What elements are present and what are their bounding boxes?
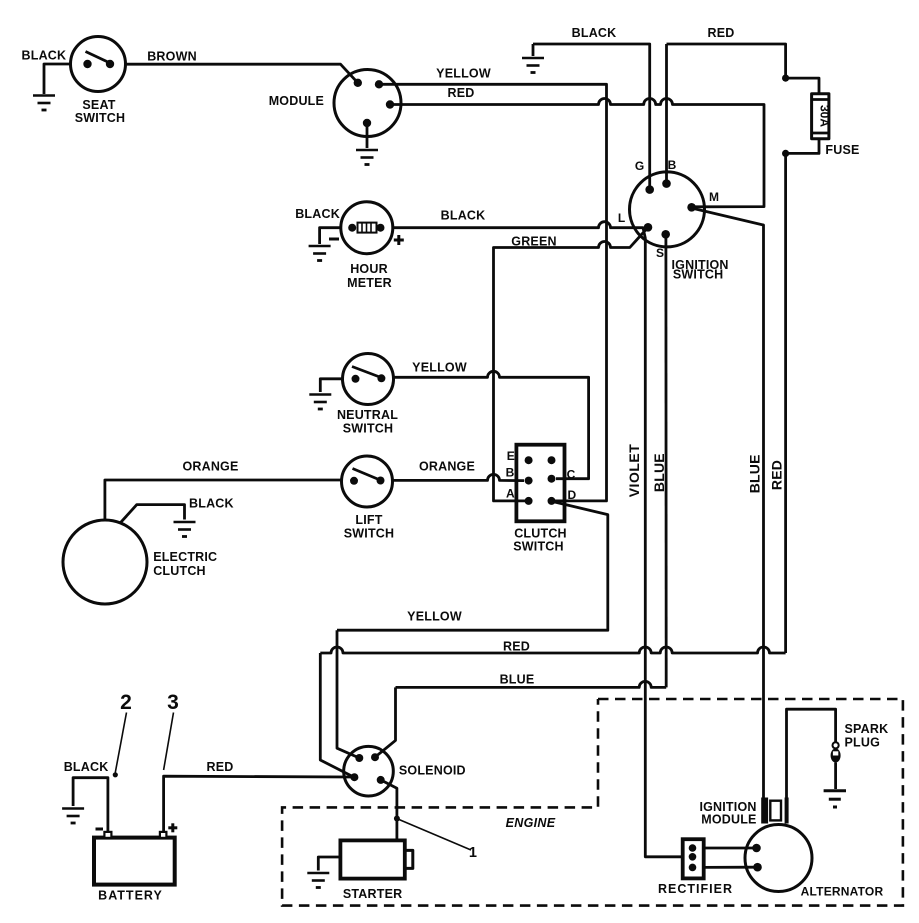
svg-text:SPARK: SPARK [845, 722, 889, 736]
svg-text:CLUTCH: CLUTCH [153, 564, 206, 578]
svg-text:FUSE: FUSE [825, 143, 859, 157]
svg-text:BLACK: BLACK [295, 207, 340, 221]
svg-text:C: C [567, 468, 576, 482]
svg-text:30A: 30A [817, 105, 831, 127]
svg-text:BLACK: BLACK [572, 26, 617, 40]
svg-text:YELLOW: YELLOW [407, 610, 462, 624]
svg-text:SWITCH: SWITCH [673, 268, 724, 282]
svg-text:BLUE: BLUE [500, 673, 535, 687]
svg-text:STARTER: STARTER [343, 887, 403, 901]
svg-text:SEAT: SEAT [82, 98, 115, 112]
svg-text:L: L [618, 211, 625, 225]
svg-text:MODULE: MODULE [269, 94, 324, 108]
svg-text:BLACK: BLACK [22, 49, 67, 63]
svg-text:RED: RED [503, 640, 530, 654]
svg-text:2: 2 [120, 691, 132, 714]
svg-text:RED: RED [769, 460, 785, 490]
svg-text:RED: RED [448, 86, 475, 100]
svg-text:YELLOW: YELLOW [436, 67, 491, 81]
svg-text:PLUG: PLUG [845, 736, 881, 750]
svg-text:MODULE: MODULE [701, 813, 756, 827]
svg-text:BROWN: BROWN [147, 50, 197, 64]
svg-text:GREEN: GREEN [511, 235, 556, 249]
svg-text:CLUTCH: CLUTCH [514, 527, 567, 541]
svg-text:BLUE: BLUE [651, 453, 667, 492]
svg-text:G: G [635, 159, 644, 173]
svg-text:BATTERY: BATTERY [98, 889, 163, 903]
svg-text:VIOLET: VIOLET [626, 444, 642, 498]
svg-text:E: E [507, 449, 515, 463]
svg-text:BLUE: BLUE [747, 454, 763, 493]
svg-text:BLACK: BLACK [64, 760, 109, 774]
svg-text:METER: METER [347, 276, 392, 290]
svg-text:D: D [567, 488, 576, 502]
svg-text:A: A [506, 487, 515, 501]
svg-text:NEUTRAL: NEUTRAL [337, 408, 398, 422]
svg-text:SWITCH: SWITCH [75, 111, 126, 125]
svg-text:BLACK: BLACK [189, 497, 234, 511]
svg-text:RED: RED [708, 26, 735, 40]
svg-text:ELECTRIC: ELECTRIC [153, 550, 217, 564]
svg-text:S: S [656, 246, 664, 260]
svg-text:B: B [506, 466, 515, 480]
svg-text:SWITCH: SWITCH [344, 527, 395, 541]
svg-text:SWITCH: SWITCH [343, 422, 394, 436]
svg-text:YELLOW: YELLOW [412, 361, 467, 375]
svg-text:ALTERNATOR: ALTERNATOR [801, 885, 884, 899]
svg-text:B: B [668, 158, 677, 172]
svg-text:3: 3 [167, 691, 179, 714]
svg-text:SOLENOID: SOLENOID [399, 764, 466, 778]
svg-text:LIFT: LIFT [355, 513, 382, 527]
svg-text:SWITCH: SWITCH [513, 540, 564, 554]
svg-text:ORANGE: ORANGE [419, 460, 475, 474]
svg-text:M: M [709, 190, 719, 204]
svg-text:HOUR: HOUR [350, 262, 388, 276]
svg-text:RED: RED [207, 760, 234, 774]
svg-text:ENGINE: ENGINE [506, 816, 556, 830]
svg-text:ORANGE: ORANGE [182, 460, 238, 474]
svg-text:BLACK: BLACK [441, 209, 486, 223]
svg-text:RECTIFIER: RECTIFIER [658, 882, 733, 896]
svg-text:1: 1 [469, 845, 477, 861]
